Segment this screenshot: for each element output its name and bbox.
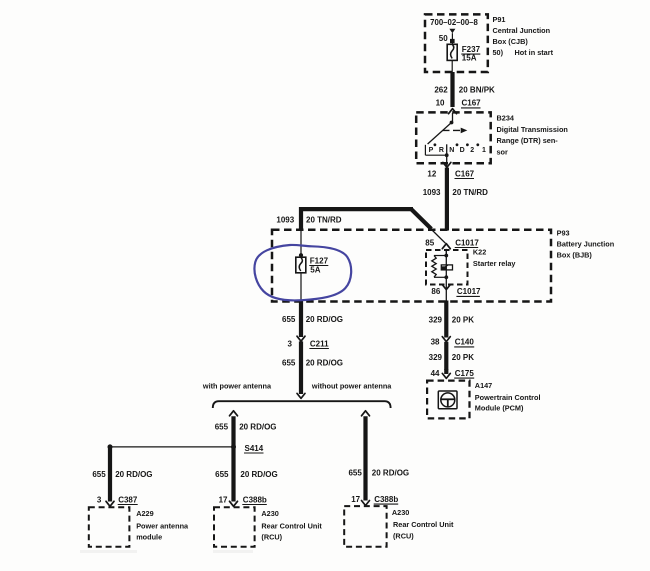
- svg-text:17: 17: [219, 495, 228, 504]
- svg-text:P93: P93: [557, 229, 570, 238]
- svg-text:S414: S414: [245, 444, 264, 453]
- svg-text:20 RD/OG: 20 RD/OG: [306, 358, 343, 367]
- svg-text:329: 329: [429, 353, 443, 362]
- svg-text:C388b: C388b: [374, 495, 398, 504]
- svg-text:F237: F237: [462, 45, 481, 54]
- svg-text:38: 38: [431, 338, 440, 347]
- svg-text:3: 3: [97, 495, 102, 504]
- svg-text:3: 3: [288, 339, 293, 348]
- svg-text:C388b: C388b: [243, 495, 267, 504]
- svg-text:655: 655: [92, 470, 106, 479]
- svg-text:700–02–00–8: 700–02–00–8: [430, 18, 478, 27]
- svg-text:N: N: [449, 147, 454, 154]
- svg-text:10: 10: [436, 99, 445, 108]
- svg-text:without power antenna: without power antenna: [311, 382, 392, 391]
- svg-text:50): 50): [493, 48, 504, 57]
- svg-text:Box (BJB): Box (BJB): [557, 250, 593, 259]
- svg-text:655: 655: [215, 470, 229, 479]
- svg-text:655: 655: [348, 469, 362, 478]
- svg-text:86: 86: [431, 287, 440, 296]
- svg-text:655: 655: [215, 423, 229, 432]
- svg-text:A147: A147: [475, 381, 492, 390]
- svg-text:1: 1: [482, 147, 486, 154]
- svg-text:Rear Control Unit: Rear Control Unit: [261, 521, 322, 530]
- svg-text:K22: K22: [473, 247, 486, 256]
- svg-text:2: 2: [470, 147, 474, 154]
- svg-text:Rear Control Unit: Rear Control Unit: [393, 520, 454, 529]
- svg-text:Power antenna: Power antenna: [136, 521, 189, 530]
- svg-text:A230: A230: [392, 508, 409, 517]
- svg-text:20 PK: 20 PK: [452, 316, 474, 325]
- svg-text:262: 262: [434, 86, 448, 95]
- svg-text:20 RD/OG: 20 RD/OG: [240, 470, 277, 479]
- svg-text:85: 85: [425, 238, 434, 247]
- svg-text:17: 17: [351, 495, 360, 504]
- svg-text:50: 50: [439, 34, 448, 43]
- svg-text:module: module: [136, 533, 162, 542]
- svg-text:Box (CJB): Box (CJB): [493, 37, 529, 46]
- svg-text:1093: 1093: [423, 188, 441, 197]
- svg-text:R: R: [439, 147, 444, 154]
- svg-text:D: D: [460, 147, 465, 154]
- svg-text:with power antenna: with power antenna: [202, 382, 272, 391]
- svg-text:C175: C175: [455, 369, 475, 378]
- svg-text:20 RD/OG: 20 RD/OG: [372, 469, 409, 478]
- svg-text:Module (PCM): Module (PCM): [475, 403, 524, 412]
- svg-text:B234: B234: [497, 114, 515, 123]
- svg-text:C1017: C1017: [455, 238, 479, 247]
- svg-text:C387: C387: [118, 495, 138, 504]
- svg-text:P: P: [429, 147, 434, 154]
- svg-text:Central Junction: Central Junction: [493, 26, 551, 35]
- svg-text:Hot in start: Hot in start: [515, 48, 554, 57]
- svg-text:C1017: C1017: [457, 287, 481, 296]
- svg-text:C211: C211: [310, 339, 329, 348]
- svg-text:20 RD/OG: 20 RD/OG: [239, 423, 276, 432]
- svg-text:C167: C167: [462, 99, 482, 108]
- svg-text:20 PK: 20 PK: [452, 353, 474, 362]
- svg-text:20 BN/PK: 20 BN/PK: [459, 86, 495, 95]
- svg-text:655: 655: [282, 315, 296, 324]
- svg-text:20 TN/RD: 20 TN/RD: [452, 188, 488, 197]
- svg-text:(RCU): (RCU): [261, 533, 282, 542]
- svg-text:44: 44: [431, 369, 440, 378]
- svg-text:20 RD/OG: 20 RD/OG: [306, 315, 343, 324]
- svg-text:12: 12: [427, 169, 436, 178]
- svg-text:20 TN/RD: 20 TN/RD: [306, 215, 342, 224]
- svg-text:655: 655: [282, 358, 296, 367]
- svg-text:Starter relay: Starter relay: [473, 259, 517, 268]
- svg-text:Range (DTR) sen-: Range (DTR) sen-: [497, 136, 559, 145]
- svg-text:C140: C140: [455, 338, 475, 347]
- svg-text:329: 329: [429, 316, 443, 325]
- svg-text:(RCU): (RCU): [393, 532, 414, 541]
- svg-text:A230: A230: [261, 509, 278, 518]
- svg-text:20 RD/OG: 20 RD/OG: [115, 470, 152, 479]
- svg-text:Powertrain Control: Powertrain Control: [475, 393, 541, 402]
- svg-text:C167: C167: [455, 169, 475, 178]
- svg-text:5A: 5A: [310, 265, 320, 274]
- svg-text:Battery Junction: Battery Junction: [557, 239, 615, 248]
- svg-text:Digital Transmission: Digital Transmission: [497, 125, 568, 134]
- svg-text:A229: A229: [136, 509, 153, 518]
- svg-text:1093: 1093: [276, 215, 294, 224]
- svg-text:F127: F127: [310, 256, 329, 265]
- svg-text:sor: sor: [497, 147, 509, 156]
- svg-text:P91: P91: [493, 15, 506, 24]
- svg-text:15A: 15A: [462, 54, 477, 63]
